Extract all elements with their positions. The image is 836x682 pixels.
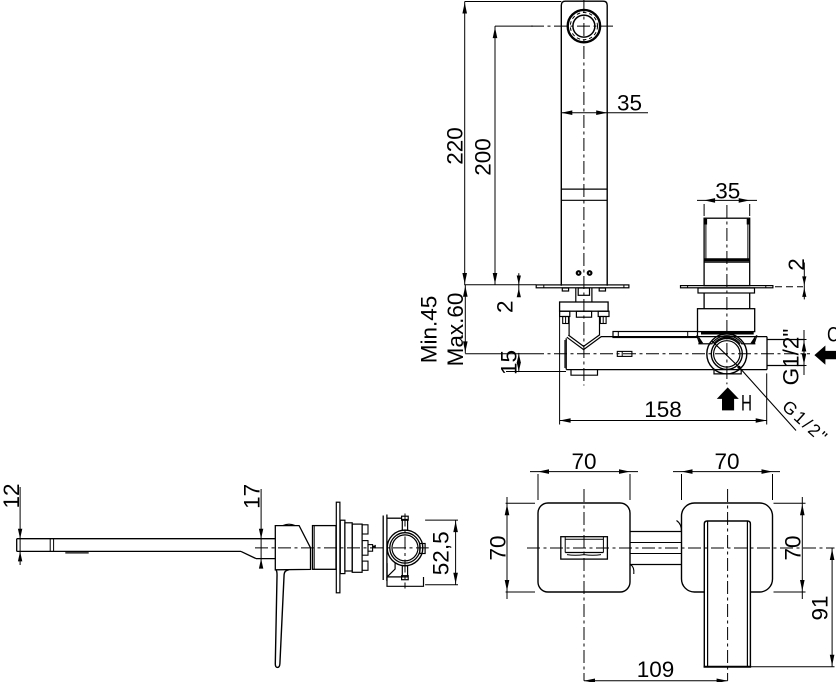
dim G1/2 ext lines [768, 340, 807, 366]
cart body seam [383, 515, 387, 582]
dim 200 line [494, 26, 496, 285]
side valve circle mid [390, 533, 420, 563]
valve circle outer [707, 334, 747, 374]
svg-text:70: 70 [780, 535, 805, 560]
dim 2 left text [493, 300, 518, 313]
svg-text:70: 70 [714, 449, 739, 474]
dim 70 right ext [774, 503, 806, 592]
dim 91 text [807, 595, 832, 620]
dim 2 right line [803, 263, 805, 300]
spout column outline [561, 1, 607, 286]
dim 15 ext bottom [506, 371, 566, 373]
dim 70 left ext [506, 503, 535, 592]
dim 15 line [518, 353, 520, 372]
body bottom line [566, 369, 767, 371]
cold inlet arrow [814, 346, 836, 365]
body right edge [766, 337, 768, 370]
dim 35 valve arrows [704, 198, 750, 203]
spout vertical centerline [583, 0, 585, 386]
dim 158 line [560, 420, 767, 422]
svg-text:H: H [741, 391, 752, 416]
dim G1/2 text [779, 329, 804, 386]
dim 2 left line [518, 273, 520, 294]
side valve circle outer [387, 530, 423, 566]
dim 525 line [455, 520, 457, 585]
wall reference line left [464, 284, 536, 286]
dim 109 arrows [584, 679, 728, 682]
side spout bottom line [17, 550, 241, 552]
valve circle inner [714, 341, 740, 367]
spout shank neck [576, 288, 592, 302]
valve plate flange [698, 288, 755, 293]
dim 35 spout text [617, 90, 642, 115]
valve wall plate dashed extension [775, 286, 803, 288]
dim Min45 text [416, 296, 441, 364]
cartridge housing [698, 309, 755, 332]
valve vertical centerline [726, 205, 728, 384]
flange tabs [560, 311, 609, 317]
valve cartridge inner lines [704, 218, 750, 262]
svg-text:35: 35 [715, 178, 740, 203]
cart screw [368, 545, 375, 552]
dim 17 line [260, 489, 262, 568]
dim 70 right text [780, 535, 805, 560]
dim 15 text [497, 350, 522, 375]
front tube arc bottom [631, 565, 634, 575]
side lower housing [387, 577, 424, 586]
bracket arc over valve [712, 336, 742, 344]
front tube arc top [677, 521, 682, 533]
front axis centerline [527, 547, 835, 549]
side spout underside [256, 558, 275, 560]
spout wall plate [536, 285, 629, 288]
dim 525 text [429, 531, 454, 575]
front left plate centerline [583, 489, 585, 681]
dim minmax line [464, 285, 466, 354]
side valve circle inner [392, 535, 418, 561]
spout cone double V [567, 335, 601, 350]
svg-text:109: 109 [637, 657, 675, 682]
aerator thread dashed circle [570, 13, 597, 40]
body top line [601, 336, 767, 338]
dim 109 line [584, 680, 728, 682]
side spout chamfer [241, 551, 256, 558]
leader line to outlet [737, 366, 740, 369]
side valve nub [420, 544, 425, 554]
dim 15 arrows [517, 354, 521, 372]
dim 70 left line [506, 497, 508, 599]
dim 70 topleft line [530, 471, 638, 473]
dim G1/2 line [803, 330, 805, 375]
dim 200 arrows [493, 27, 498, 284]
dim 2 right arrows [802, 276, 806, 297]
cartridge housing band [701, 331, 754, 334]
body left edge [565, 338, 566, 369]
dim G1/2 arrows [802, 341, 807, 365]
dim 2 left arrows [517, 276, 521, 298]
svg-text:12: 12 [0, 483, 24, 508]
dim minmax arrows [463, 286, 468, 353]
dim 70 left arrows [505, 504, 510, 591]
aerator inner circle [573, 15, 595, 37]
side vertical centerline [404, 514, 406, 589]
dim 91 arrows [830, 549, 835, 666]
front tube lines [630, 532, 681, 565]
body axis centerline [465, 353, 810, 355]
dim 35 spout line [561, 112, 648, 114]
bracket left ear [697, 335, 713, 344]
valve cartridge corner marks [706, 219, 748, 225]
dim 158 ext left [559, 312, 561, 425]
dim 220 line [464, 2, 466, 285]
spout shank sides [569, 317, 599, 336]
dim 70 right line [801, 497, 803, 599]
flange screws [563, 317, 606, 324]
side spout left end [16, 539, 18, 552]
valve wall plate [681, 286, 773, 288]
dim 200 text [471, 138, 496, 176]
cart slab B [345, 523, 352, 571]
svg-text:2: 2 [493, 300, 518, 313]
dim 70 topright arrows [682, 469, 773, 474]
svg-text:2: 2 [784, 258, 809, 271]
svg-text:200: 200 [471, 138, 496, 176]
valve cartridge nut band [705, 258, 750, 261]
dim 12 text [0, 483, 24, 508]
side body dome [283, 524, 295, 525]
dim 220 extension line top [465, 1, 562, 3]
hot inlet arrow [717, 387, 739, 410]
dim 109 text [637, 657, 675, 682]
dim 91 ext bottom [751, 666, 835, 668]
svg-text:G1/2": G1/2" [779, 329, 804, 386]
outlet stub [767, 340, 804, 366]
svg-text:70: 70 [571, 449, 596, 474]
dim 70 left text [486, 535, 511, 560]
dim 35 valve ext lines [704, 204, 750, 216]
dim 158 arrows [560, 418, 767, 423]
dim 220 arrows [462, 3, 467, 285]
spout plate lugs [562, 288, 605, 291]
svg-text:52,5: 52,5 [429, 531, 454, 575]
side valve clip [387, 563, 395, 577]
aerator horizontal centerline [531, 25, 615, 27]
dim 525 arrows [453, 521, 458, 584]
dim 12 line [19, 487, 21, 565]
front right plate centerline [727, 489, 729, 681]
side body sleeve [313, 526, 337, 570]
side valve body top [387, 517, 402, 519]
valve circle mid [711, 338, 742, 369]
front spout inner lines [565, 537, 603, 553]
svg-text:Max.60: Max.60 [443, 293, 468, 367]
hot label H [741, 391, 752, 416]
front left plate [538, 503, 630, 592]
dim 17 text [239, 484, 264, 509]
dim 17 arrows [259, 529, 263, 569]
dim 70 right arrows [800, 504, 805, 591]
svg-text:C: C [827, 323, 836, 346]
front handle [704, 521, 752, 667]
dim 70 topleft text [571, 449, 596, 474]
aerator outer circle [568, 10, 600, 42]
dim 70 topleft ext [538, 474, 630, 500]
side spout aerator seam [50, 539, 53, 552]
side spout top line [17, 538, 276, 540]
svg-text:15: 15 [497, 350, 522, 375]
front handle inner lines [708, 522, 748, 667]
dim 35 valve text [715, 178, 740, 203]
dim 70 topright ext [682, 474, 773, 500]
dim 158 ext right [766, 373, 768, 424]
cart block C [352, 524, 362, 572]
leader G1/2 text [778, 396, 832, 448]
valve foot [714, 370, 741, 374]
svg-text:70: 70 [486, 535, 511, 560]
spout mounting flange [560, 302, 609, 311]
side wall plate [336, 502, 340, 593]
dim 12 arrows [18, 529, 22, 562]
side spout slot [65, 552, 88, 554]
side valve body bottom [387, 576, 402, 578]
cart flange A [340, 520, 345, 573]
body left foot [571, 370, 598, 376]
dim Max60 text [443, 293, 468, 367]
front right plate [682, 503, 773, 592]
side axis centerline [255, 547, 429, 549]
dim 200 extension line [495, 25, 533, 27]
svg-text:35: 35 [617, 90, 642, 115]
svg-text:220: 220 [442, 127, 467, 165]
valve column below plate [704, 293, 750, 309]
dim 70 topleft arrows [538, 469, 630, 474]
dim 35 spout arrows [561, 110, 607, 115]
dim 70 topright text [714, 449, 739, 474]
dim 91 line [831, 548, 833, 667]
spout set screws [576, 270, 593, 276]
side body outline [275, 526, 310, 570]
front spout outer [561, 537, 608, 559]
bleed screw [617, 351, 632, 356]
dim 158 text [644, 397, 682, 422]
bracket right ear [741, 335, 757, 344]
cart ports [362, 525, 368, 571]
dim 70 topright line [673, 471, 780, 473]
svg-text:158: 158 [644, 397, 682, 422]
dim 525 ext lines [425, 520, 458, 585]
dim 220 text [442, 127, 467, 165]
svg-text:17: 17 [239, 484, 264, 509]
svg-text:91: 91 [807, 595, 832, 620]
valve circle diagonal [712, 341, 796, 431]
dim 2 right text [784, 258, 809, 271]
dim 35 valve line [697, 199, 757, 201]
spout column seam lines [561, 189, 607, 200]
svg-text:Min.45: Min.45 [416, 296, 441, 364]
side handle lever [275, 570, 289, 668]
front spout water edge [567, 554, 601, 557]
valve column outline [704, 218, 750, 285]
cold label C [827, 323, 836, 346]
side valve stem bottom [402, 566, 409, 580]
upper connection pipe [613, 332, 698, 338]
side valve stem top [402, 516, 409, 530]
